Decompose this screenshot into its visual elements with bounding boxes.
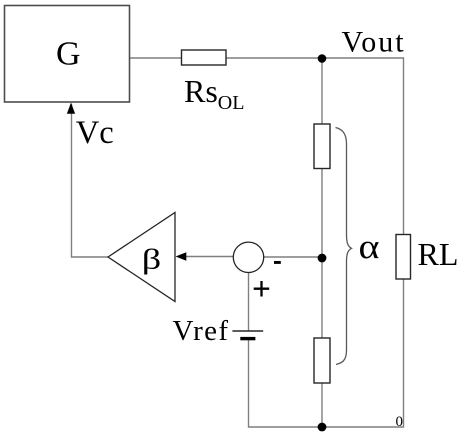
svg-text:RL: RL [418,236,458,272]
svg-text:G: G [56,36,81,73]
summing junction U1 [233,242,263,272]
wire: summing junction down to Vref battery [248,271,250,331]
resistor RL [396,235,411,280]
resistor Rs_OL [182,50,227,65]
label plus [254,281,270,297]
label minus [274,261,281,264]
battery Vref short plate [240,337,255,340]
wire: Vref battery down to bottom rail [248,339,250,428]
wire: bottom return rail [248,426,404,428]
arrowhead into beta amp [176,252,187,261]
node Vout [318,54,327,63]
battery Vref long plate [232,330,263,332]
wire: middle divider node to summing junction [262,256,322,258]
resistor lower divider [314,338,330,383]
wire: summing junction to beta amp input [183,256,235,258]
resistor upper divider [314,124,330,169]
node bottom [318,423,327,432]
wire: G output to Rs_OL and on to Vout corner [129,57,404,59]
wire: right vertical rail (Vout corner down through RL to bottom) [403,58,405,428]
wire: divider vertical rail from Vout node to bottom node [321,58,323,428]
wire: left vertical rail up to G input [71,104,73,258]
arrowhead into G [67,103,75,114]
svg-text:Vout: Vout [342,25,406,58]
wire: beta amp output to left corner [72,256,109,258]
op-amp beta [108,213,175,302]
svg-text:0: 0 [396,414,404,430]
svg-text:β: β [142,244,162,276]
node divider middle [318,254,327,263]
svg-text:α: α [359,227,380,266]
svg-text:Vref: Vref [173,315,230,347]
brace alpha [336,128,352,365]
svg-text:Vc: Vc [76,115,114,151]
block G [5,6,130,103]
